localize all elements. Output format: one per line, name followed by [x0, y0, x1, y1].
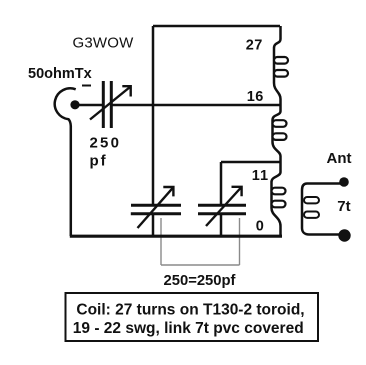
connector 50ohm input (arc) [55, 88, 76, 236]
inductor L1 spine section 11-0 [272, 162, 281, 236]
svg-text:Ant: Ant [327, 150, 352, 167]
wire top rail [153, 25, 280, 28]
capacitor C2 arrow [138, 187, 174, 228]
svg-text:pf: pf [90, 153, 108, 170]
capacitor C3 (right shunt 250pf) plates [198, 204, 246, 207]
annotation bracket 250=250pf [161, 218, 240, 265]
wire C2 bottom lead [152, 215, 155, 236]
caption box [66, 293, 319, 341]
svg-text:0: 0 [256, 219, 264, 235]
inductor L1 spine section 27-16 [274, 26, 281, 105]
capacitor C1 arrow [90, 87, 130, 120]
inductor L1 spine section 16-11 [273, 105, 281, 162]
svg-text:27: 27 [246, 37, 263, 53]
capacitor C2 (left shunt 250pf) plates [131, 204, 181, 207]
node dot input [70, 100, 79, 109]
svg-text:Coil: 27 turns on T130-2 toroi: Coil: 27 turns on T130-2 toroid, [76, 302, 304, 319]
svg-text:250=250pf: 250=250pf [164, 273, 236, 289]
capacitor C3 arrow [206, 187, 242, 226]
wire C1 to coil tap 16 [112, 104, 280, 107]
terminal dot Ant top [339, 177, 349, 187]
link coil L2 spine [302, 184, 340, 235]
wire C3 top lead [220, 162, 223, 204]
capacitor C1 250pf series (plates) [102, 81, 105, 128]
svg-text:50ohmTx: 50ohmTx [28, 66, 92, 82]
terminal dot Ant bottom [338, 229, 350, 241]
svg-text:250: 250 [90, 135, 122, 152]
wire C3 bottom lead [220, 215, 223, 236]
wire input dot to C1 [75, 104, 102, 107]
svg-text:11: 11 [252, 168, 269, 184]
link coil L2 top lead [307, 182, 341, 185]
wire bottom rail [70, 235, 282, 238]
dash under Tx [82, 85, 91, 87]
svg-text:16: 16 [247, 89, 264, 105]
inductor L1 loops [272, 57, 289, 207]
svg-text:19 - 22 swg, link 7t pvc cover: 19 - 22 swg, link 7t pvc covered [73, 320, 304, 337]
wire tap11 rail [221, 161, 280, 164]
link coil L2 loops [304, 197, 319, 218]
svg-text:7t: 7t [337, 198, 350, 215]
svg-text:G3WOW: G3WOW [73, 35, 135, 52]
wire vertical branch x=153 (top rail to C2) [152, 26, 155, 204]
